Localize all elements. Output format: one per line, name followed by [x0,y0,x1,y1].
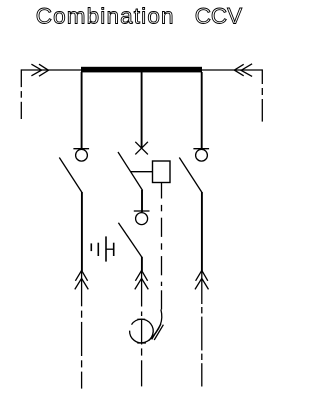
left drawout contact tick [73,148,89,150]
right disconnect switch blade [179,158,202,193]
middle feeder up-arrow chevron 1 [135,270,147,280]
ground electrode symbol bar 1 (short) [90,243,92,251]
relay box [153,161,171,183]
wire: middle feeder between switch and contact [141,190,143,212]
middle drawout contact circle [136,213,148,225]
wire: left feeder dash-dot continuation [81,311,83,389]
wire: incoming line left horizontal [21,69,81,71]
svg-text:Combination: Combination [36,4,175,29]
incoming flow chevron right inner [241,64,252,77]
right feeder up-arrow chevron 2 [195,278,209,289]
wire: left feeder drop from bus [81,72,83,149]
incoming flow chevron right outer [234,64,243,76]
incoming flow chevron left inner [39,64,49,76]
left drawout contact circle [76,149,88,161]
wire: middle feeder dash-dot through motor circle [141,312,143,387]
svg-text:CCV: CCV [195,4,243,29]
middle disconnect switch blade lower [118,223,141,258]
wire: middle feeder above arrow [141,257,143,271]
control linkage curve into motor [149,310,162,341]
wire: right feeder drop from bus [201,72,203,149]
wire: right feeder below switch [201,192,203,271]
wire: incoming line right horizontal [202,69,262,71]
wire: middle feeder drop from bus [141,72,143,148]
middle drawout contact tick [134,210,150,212]
right feeder up-arrow chevron 1 [196,270,208,280]
motor circle bottom tick [137,342,146,344]
motor circle top tick [137,318,145,320]
ground electrode symbol bar 2 (medium) [97,243,99,256]
wire: right feeder dash-dot continuation [201,307,203,387]
fuse cross X mark [135,142,148,155]
ground electrode symbol bar 3 (long) [105,236,107,261]
wire: left feeder below switch [81,192,83,271]
incoming flow chevron left outer [31,64,41,76]
capacitor plate bar 4 [113,243,115,256]
left disconnect switch blade [59,158,82,193]
left feeder up-arrow chevron 2 [75,278,89,289]
middle feeder up-arrow chevron 2 [135,278,149,289]
wire: right feeder solid tail [201,271,203,304]
title text "Combination CCV" [36,4,243,29]
wire: middle feeder solid tail [141,271,143,307]
wire: relay dash-dot control line [161,183,163,310]
ground lead horizontal [106,248,114,250]
wire: right source dash-dot line [261,69,263,121]
linkage arrow slash 2 [154,325,163,340]
right drawout contact tick [193,148,209,150]
wire: tap to relay box [131,171,153,173]
right drawout contact circle [196,149,208,161]
wire: left feeder solid tail [81,271,83,306]
wire: left source dash-dot line [20,69,22,119]
middle disconnect switch blade upper [118,152,143,191]
bus bar [81,67,202,73]
left feeder up-arrow chevron 1 [75,270,87,280]
motor operator circle [130,319,154,343]
linkage arrow slash 1 [152,324,161,339]
